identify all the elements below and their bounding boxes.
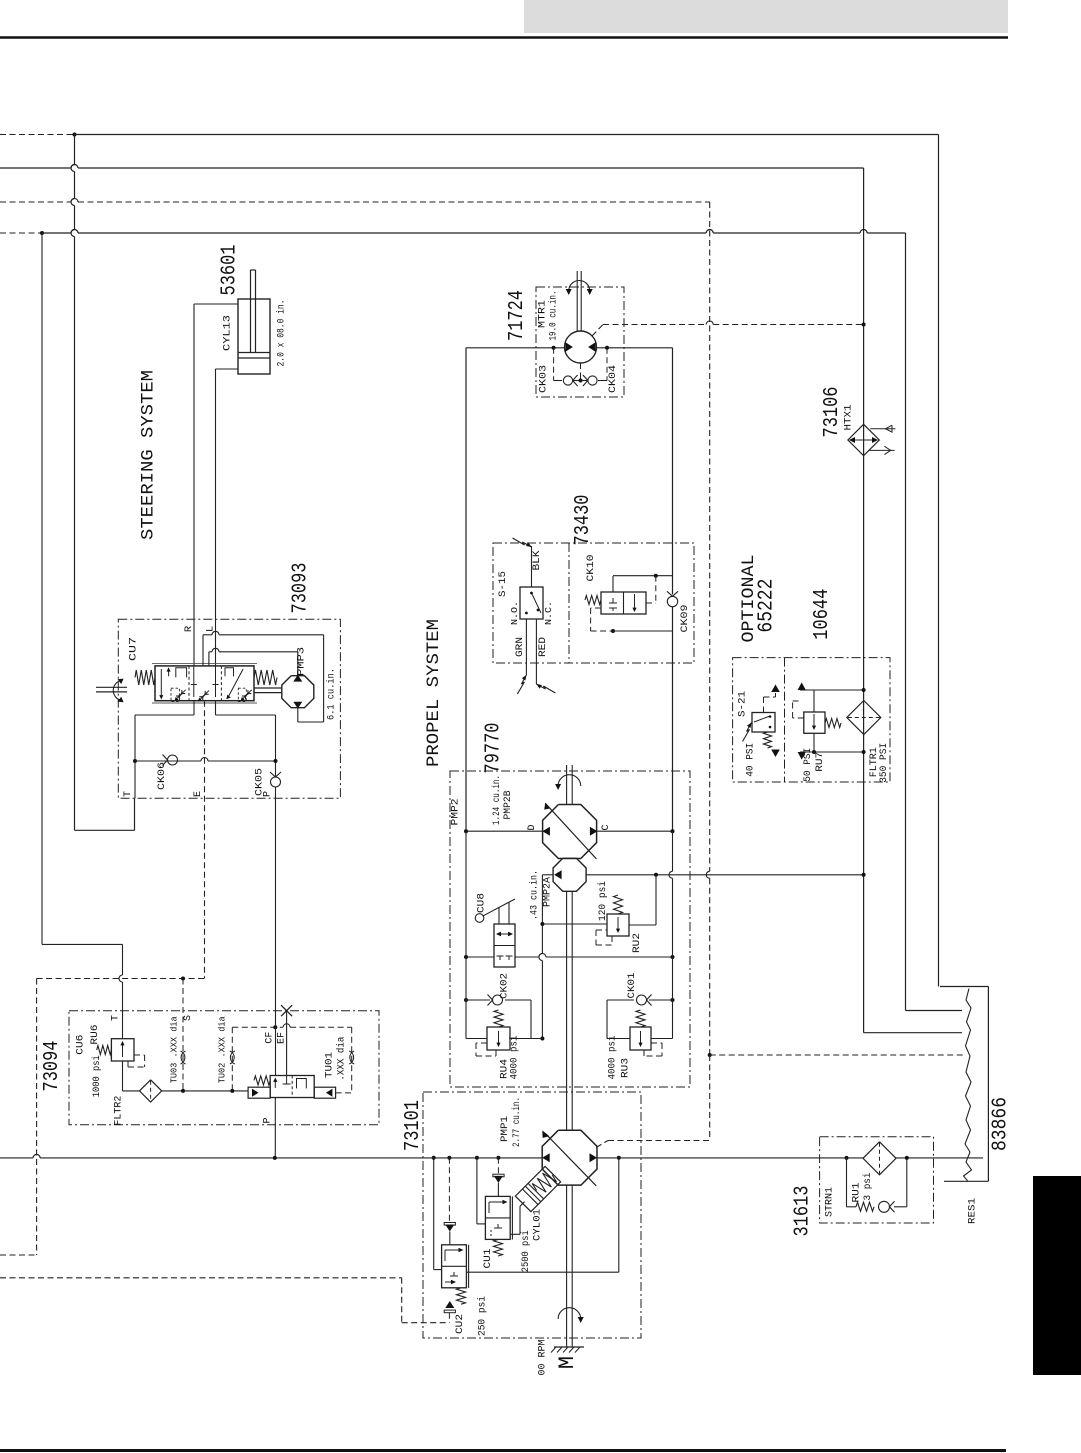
shaft bottom [567,1185,573,1347]
wire FLTR1 top line [798,682,864,690]
svg-text:2.0 x 08.0 in.: 2.0 x 08.0 in. [276,300,288,367]
box 73430 enclosure [493,543,694,663]
steering input arrow [113,679,123,703]
label 00 RPM [537,1340,549,1376]
wire bypass line [466,954,673,957]
wire RV2 right [629,875,656,925]
label 10644 [811,589,834,640]
svg-text:STEERING SYSTEM: STEERING SYSTEM [139,370,159,540]
junction bypass right [671,955,675,959]
svg-text:CK03: CK03 [538,365,550,393]
junction CV1 feed [475,1156,479,1160]
check CK03 [554,375,581,386]
svg-text:N.O.: N.O. [509,601,520,625]
svg-text:4000 psi: 4000 psi [509,1036,521,1080]
svg-text:TU02 .XXX dia: TU02 .XXX dia [217,1016,228,1083]
valve RV3 arrow [638,1031,642,1047]
box 73101 enclosure [423,1092,641,1338]
svg-text:73430: 73430 [572,495,595,546]
valve CV8 body [494,924,515,967]
wire CK06 line [135,758,276,762]
label RV3 [620,1058,632,1078]
svg-text:10644: 10644 [811,589,834,640]
svg-text:73094: 73094 [41,1041,64,1092]
wire CK02 line [466,1000,531,1039]
svg-text:CU7: CU7 [128,637,140,661]
wire RV4 line [466,1038,542,1040]
pump PMP1 body [542,1130,597,1185]
label 120 psi [597,881,609,921]
wire CV2 feed [434,1158,442,1270]
label RV2 [631,933,643,953]
wire bus2 [0,165,864,168]
box optional enclosure [733,658,890,782]
svg-text:RU3: RU3 [620,1058,632,1078]
box 73093 enclosure [118,619,340,798]
valve RV6 pilot dashed [128,1055,145,1067]
label E port [193,791,204,797]
junction bus1 [73,133,77,137]
junction CV1 pilot [496,1156,500,1160]
svg-text:83866: 83866 [990,1097,1013,1151]
svg-text:CU6: CU6 [75,1035,87,1055]
label 73101 [402,1100,425,1151]
valve CV1 arrow [489,1200,508,1213]
valve TV01 ports right [297,1079,307,1089]
svg-text:FLTR2: FLTR2 [112,1096,124,1126]
svg-text:PMP1: PMP1 [499,1116,511,1142]
wire cyl head to R [194,304,238,666]
wire BLK [531,546,533,587]
switch S-21 contact [754,715,771,728]
valve RV2 pilot dashed [596,930,612,945]
wire CV1 inlet [497,1183,499,1197]
wire E dashed [204,701,206,979]
label 1000 psi [91,1055,103,1097]
wire RV7 vert [813,690,815,752]
label CK04 [607,365,619,393]
svg-text:CK10: CK10 [585,555,597,582]
wire T return elbow [75,798,135,830]
box 31613 enclosure [820,1137,934,1223]
label FLTR1 [868,747,880,777]
label 31613 [792,1186,815,1237]
wire CV1 out [510,1202,524,1235]
valve CV7 L stub [213,666,219,697]
label EF [276,1032,287,1044]
cylinder CYL13 piston [238,353,270,359]
svg-text:RES1: RES1 [967,1198,979,1224]
svg-text:19.0 cu.in.: 19.0 cu.in. [548,291,560,341]
wire CV1 pilot dashed [497,1158,499,1175]
wire EF line [286,1011,288,1076]
svg-text:.XXX dia: .XXX dia [335,1037,347,1081]
label HTX1 [843,405,855,431]
wire cooler line [863,168,865,1033]
label 6.1 cu.in. [326,668,338,720]
wire CK04 dashed [606,348,608,381]
label 73094 [41,1041,64,1092]
switch S-21 triangle up [771,685,780,693]
wire RV3 line [607,1038,673,1040]
label OPTIONAL [739,555,759,643]
label CYL13 [222,315,234,351]
junction motor drain [579,379,583,383]
label L [205,626,217,632]
junction P main [273,1156,277,1160]
svg-text:3 psi: 3 psi [862,1173,874,1201]
wire D drop [465,348,467,831]
valve RV3 body [630,1027,651,1050]
svg-text:S: S [183,1015,194,1021]
wire LS drop [42,233,123,944]
junction CK02 left [464,998,468,1002]
motor MTR1 body [565,331,597,363]
shaft mid2 [567,891,573,1130]
label T port [123,791,134,797]
label STRN1 [824,1187,836,1217]
valve CV2 blocked [450,1272,458,1276]
valve CV8 blocked [497,956,513,960]
svg-text:CU1: CU1 [482,1249,494,1269]
label CK10 [585,555,597,582]
wire CV2 inlet [449,1232,451,1245]
wire cyl rod to L [216,369,239,666]
svg-text:S-15: S-15 [497,571,509,597]
valve TV01 right port block [314,1087,335,1098]
label 73430 [572,495,595,546]
svg-text:S-21: S-21 [737,691,749,717]
shaft ground hatch [551,1347,584,1353]
wire bus3 dashed [0,199,710,203]
valve RV4 arrow [496,1031,500,1047]
check CK02 [488,995,503,1006]
wire suction dashed [706,202,710,1055]
valve CV7 cross arrow [226,669,243,699]
svg-text:RU1: RU1 [851,1183,863,1203]
label RES1 [967,1198,979,1224]
wire T return drop [71,135,75,831]
label 1.24 cu.in. [491,775,503,825]
switch S-15 body [520,587,543,619]
svg-text:PMP2A: PMP2A [542,876,554,907]
valve CV7 orifice b [198,691,209,702]
switch S-21 spring [764,732,772,748]
wire PMP2A left [542,875,553,924]
wire CV2 drain dashed [448,1313,450,1323]
wire FLTR1 bottom line [798,752,864,760]
label TV01 dia [335,1037,347,1081]
junction charge-RV2 [654,873,658,877]
valve CV2 arrow2 [445,1280,456,1284]
wire valve to T [135,701,194,799]
valve CV8 arrow [496,932,513,937]
wire charge line [586,874,864,876]
wire RV2 left [542,923,607,925]
valve CV1 right bar [511,1196,513,1239]
wire C drop lower [672,607,674,832]
junction strn l [845,1156,849,1160]
svg-text:C: C [601,824,612,830]
wire CK01 line [607,1000,673,1039]
wire C drop upper [672,348,674,595]
wire TV02 pilot loop dashed [232,1024,351,1093]
svg-text:79770: 79770 [483,723,506,774]
lightning GRN [517,675,526,694]
wire CK10 bottom [613,630,673,632]
valve CV2 inlet triangle [444,1223,455,1232]
svg-text:71724: 71724 [506,290,529,341]
svg-text:250 psi: 250 psi [477,1296,489,1336]
check CK04 [581,375,608,386]
wire CV1 feed [477,1158,486,1224]
label PMP2A [542,876,554,907]
valve RV7 spring [825,719,841,728]
label 250 psi [477,1296,489,1336]
svg-text:350 PSI: 350 PSI [878,743,890,783]
valve TV01 body [270,1076,314,1098]
shaft rotation arrow top [555,775,581,790]
svg-text:73101: 73101 [402,1100,425,1151]
filter FLTR2 body [140,1080,162,1102]
wire filter out [162,1090,248,1092]
label 2500 psi [520,1230,532,1272]
valve RV3 spring [636,1010,645,1027]
junction FLTR1 bottom [862,750,866,754]
wire bus4 [42,230,906,233]
label 79770 [483,723,506,774]
label 2.77 cu.in. [511,1097,523,1147]
pump PMP1 triangles [542,1153,597,1162]
svg-text:TU01: TU01 [324,1052,336,1078]
top rule [0,36,1008,38]
wire pilot dashed down [709,1055,711,1141]
label CF [265,1032,276,1044]
label TV03 [169,1016,180,1083]
wire CV2 pilot dashed [448,1158,450,1223]
label S port 94 [183,1015,194,1021]
junction bypass left [464,955,468,959]
motor MTR1 triangles [565,342,595,352]
header gray bar [524,0,1008,33]
svg-text:T: T [123,791,134,797]
svg-text:CF: CF [265,1032,276,1044]
wire left col drop [465,831,467,1038]
svg-text:T: T [111,1015,122,1021]
valve RV2 arrow [616,917,620,933]
junction TV03 [181,1089,185,1093]
valve RV4 spring [494,1010,503,1027]
valve RV4 pilot dashed [476,1043,496,1056]
check RV1 [879,1201,895,1212]
label 3 psi [862,1173,874,1201]
motor MTR1 rotation arrow [566,281,593,296]
valve RV2 spring [614,895,623,914]
label STEERING SYSTEM [139,370,159,540]
junction P ck06 [274,759,278,763]
reservoir top edge [940,986,988,988]
junction charge-cooler [862,873,866,877]
svg-text:RU2: RU2 [631,933,643,953]
wire RV6 to filter [123,1061,140,1091]
pump PMP2A body [553,858,586,891]
junction CV2 out [617,1156,621,1160]
wire P out [274,1098,276,1158]
junction CV2 feed [432,1156,436,1160]
wire bus4 dashed stub [0,232,42,234]
junction bus4 [40,231,44,235]
page tab black block [1033,1176,1081,1375]
label P port 94 [263,1117,274,1123]
valve CV1 body [485,1196,510,1239]
svg-text:E: E [193,791,204,797]
cooler air out arrow [869,446,895,454]
svg-text:RED: RED [537,637,549,657]
junction CK10 bottom [611,629,615,633]
wire CV2 out [466,1158,618,1273]
svg-text:CK06: CK06 [156,762,168,790]
svg-text:PMP2: PMP2 [450,799,462,826]
pump PMP1 swash [542,1130,596,1185]
check CK09 [667,591,678,606]
pump PMP2B triangles [542,827,597,836]
wire TV03 dashed [182,979,184,1091]
label CK03 [538,365,550,393]
wire LS to RV6 [119,944,123,1038]
label R [183,625,195,632]
check CK06 [163,755,178,766]
valve RV1 spring [856,1202,874,1211]
cooler air in arrow [870,425,895,432]
label 53601 [219,245,242,296]
bottom rule [0,1449,1006,1452]
wire motor C [597,347,673,349]
valve CV7 R stub [191,666,197,697]
label RED [537,637,549,657]
valve CV2 outlet triangle [444,1301,455,1313]
junction TV02 [230,1089,234,1093]
svg-text:CK09: CK09 [679,605,691,633]
label GRN [514,637,526,657]
wire GRN [525,619,527,675]
svg-text:6.1 cu.in.: 6.1 cu.in. [326,668,338,720]
svg-text:00 RPM: 00 RPM [537,1340,549,1376]
label S-21 [737,691,749,717]
label PMP3 [295,647,307,676]
shaft rotation arrow bottom [558,1308,584,1323]
shaft mid1 [566,858,568,860]
check CK01 [637,995,652,1006]
wire C line [597,830,672,832]
label TV02 [217,1016,228,1083]
wire CK10 top [613,576,673,592]
svg-text:M: M [555,1356,580,1369]
wire RV1 bypass [847,1158,907,1207]
label 4000 psi right [607,1036,619,1080]
label CV6 [75,1035,87,1055]
wire CK10 pilot dashed [646,576,656,603]
wire pilot dashed to PMP1 [596,1141,710,1148]
label CV2 [454,1314,466,1334]
wire A valve-PMP3 [203,631,324,722]
label 73106 [821,387,844,438]
check CK05 [270,770,281,798]
wire case drain line [906,233,963,1011]
lightning BLK [513,538,532,547]
valve TV01 left port block [248,1087,270,1098]
svg-text:CK01: CK01 [626,973,638,999]
valve RV6 body [111,1039,134,1061]
cylinder CYL13 rod [251,270,256,353]
svg-text:CU8: CU8 [476,893,488,913]
label 50 PSI [802,748,814,782]
label PMP1 [499,1116,511,1142]
wire CF line [275,798,277,1075]
label T port 94 [111,1015,122,1021]
junction motor D ck [552,346,556,350]
valve CV7 left down arrow [159,669,163,700]
label CV8 [476,893,488,913]
svg-text:BLK: BLK [531,550,543,571]
valve TV01 EF stub [283,1076,291,1085]
junction strn r [905,1156,909,1160]
wire motor sense dashed [592,321,864,336]
svg-text:N.C.: N.C. [543,601,554,625]
valve CV7 right port square [225,668,234,676]
junction RV2 left [540,922,544,926]
svg-text:31613: 31613 [792,1186,815,1237]
label RV1 [851,1183,863,1203]
svg-text:1.24 cu.in.: 1.24 cu.in. [491,775,503,825]
valve RV7 pilot dashed [793,701,804,718]
cooler HTX1 arrows [849,437,878,443]
valve TV01 arrow up [273,1078,277,1089]
svg-text:RU6: RU6 [89,1025,101,1045]
svg-text:PROPEL SYSTEM: PROPEL SYSTEM [424,619,444,767]
lightning RED [536,684,555,693]
label CK02 [499,973,511,999]
box 79770 enclosure [450,771,690,1087]
svg-text:2.77 cu.in.: 2.77 cu.in. [511,1097,523,1147]
valve RV7 body [804,712,825,733]
reservoir wavy surface [964,989,972,1182]
cooler HTX1 body [848,424,879,455]
wire cooler line3 [864,1032,962,1034]
pump PMP2B body [543,805,597,859]
valve CV7 left port square [176,668,187,678]
reservoir right edge [987,987,989,1182]
label S-15 [497,571,509,597]
valve CK10 arrow [632,594,636,612]
junction PMP2A drop bottom [540,1037,544,1041]
label 83866 [990,1097,1013,1151]
valve CV2 right bar [468,1245,470,1288]
valve CV7 body [152,664,257,703]
wire E exit dashed [0,1254,37,1256]
orifice TV01 [349,1051,354,1064]
label .43 cu.in. [529,870,541,920]
valve CV7 spring right [254,670,277,685]
valve CV2 spring [457,1288,466,1304]
switch S-21 triangle down [771,750,780,758]
junction T ck06 [133,759,137,763]
label 4000 psi left [509,1036,521,1080]
label N.C. [543,601,554,625]
valve RV6 arrow [120,1041,124,1057]
svg-text:.43 cu.in.: .43 cu.in. [529,870,541,920]
svg-text:CU2: CU2 [454,1314,466,1334]
plug X EF [281,1005,292,1016]
